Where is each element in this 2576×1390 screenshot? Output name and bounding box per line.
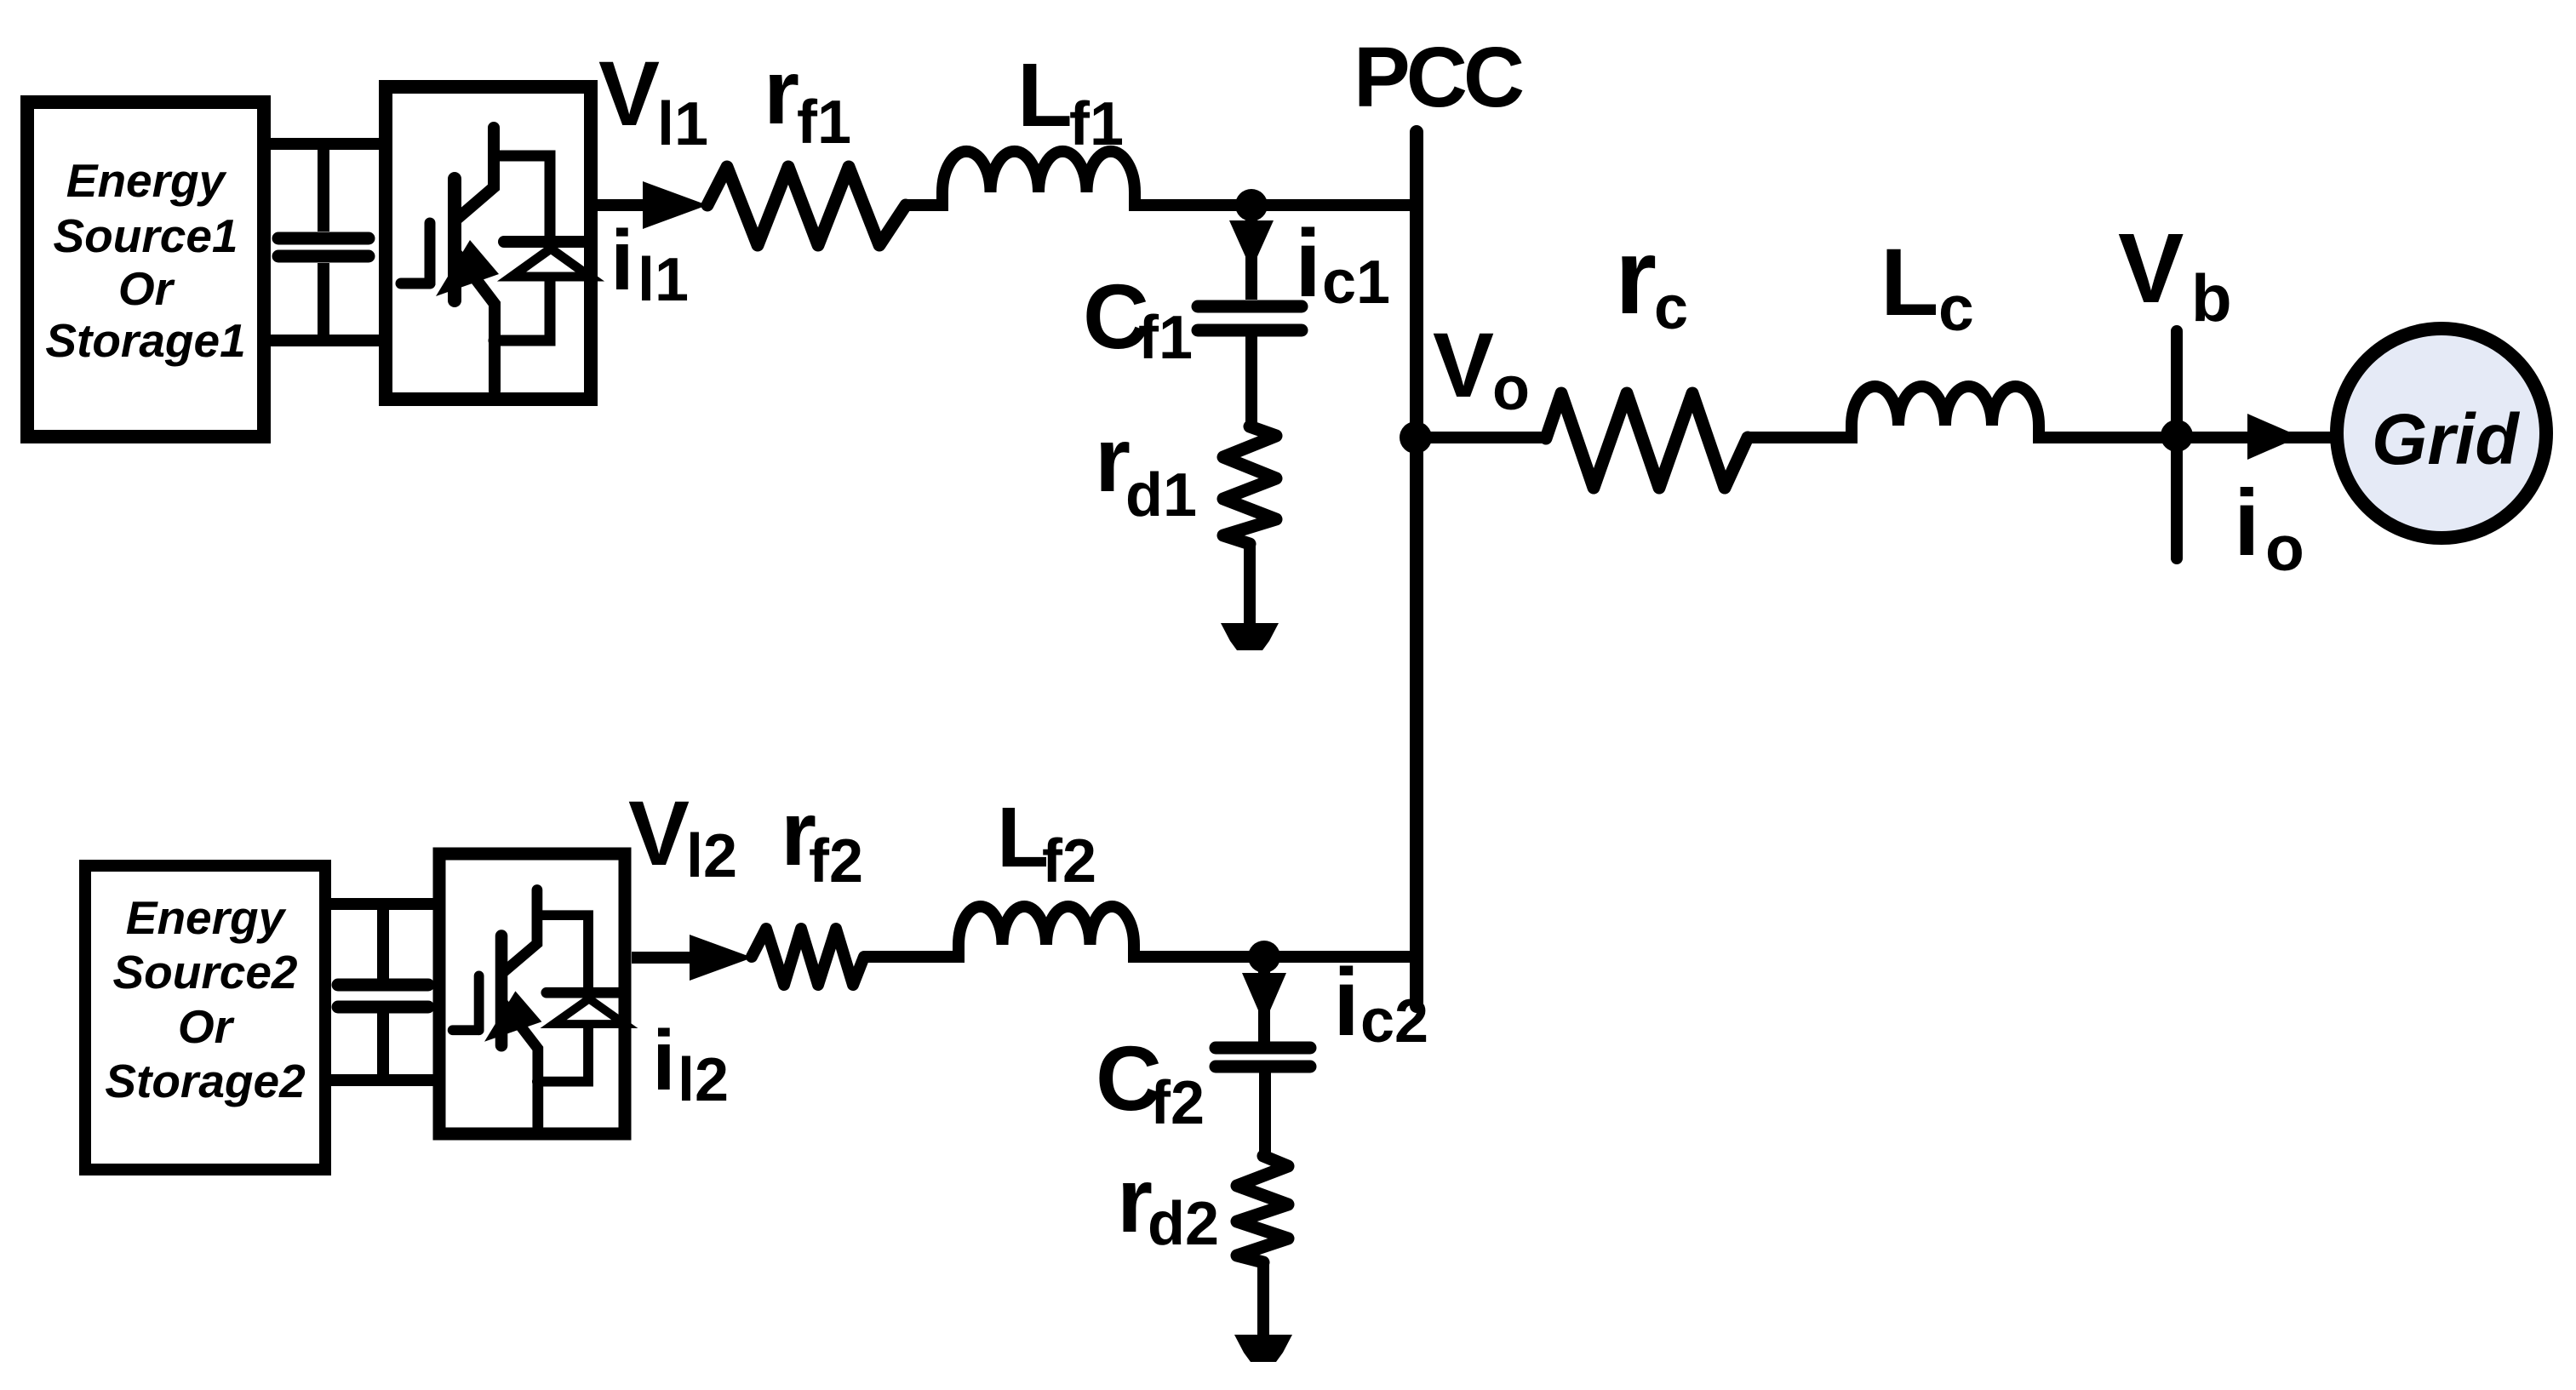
svg-text:d2: d2 — [1148, 1190, 1219, 1258]
svg-text:l1: l1 — [657, 90, 708, 158]
svg-text:r: r — [1615, 216, 1657, 336]
wire — [864, 951, 962, 963]
label C_f1 — [1083, 265, 1193, 372]
inverter U2 box — [439, 854, 625, 1134]
svg-text:L: L — [1880, 229, 1938, 335]
svg-text:l2: l2 — [678, 1046, 729, 1114]
label r_f1 — [764, 40, 851, 157]
resistor r_f1 — [707, 167, 906, 245]
svg-text:r: r — [764, 40, 799, 143]
label r_c — [1615, 216, 1688, 342]
wire — [1748, 432, 1854, 443]
inductor L_c — [1852, 386, 2039, 443]
wire inverter2 output — [632, 952, 694, 964]
svg-text:o: o — [2265, 512, 2304, 584]
svg-text:i: i — [610, 213, 634, 308]
svg-text:d1: d1 — [1125, 461, 1197, 529]
arrow i_c1 — [1245, 213, 1257, 300]
svg-text:c1: c1 — [1322, 249, 1390, 317]
label i_c1 — [1295, 210, 1390, 317]
svg-text:b: b — [2191, 260, 2232, 335]
svg-text:L: L — [997, 790, 1049, 885]
wire to PCC (top) — [1135, 199, 1413, 211]
svg-text:f2: f2 — [809, 827, 863, 895]
svg-text:Energy: Energy — [126, 891, 287, 944]
svg-text:Or: Or — [118, 262, 175, 315]
svg-text:Storage2: Storage2 — [105, 1055, 306, 1107]
label V_l2 — [628, 781, 737, 890]
label i_c2 — [1333, 949, 1428, 1055]
label r_d2 — [1117, 1148, 1219, 1258]
svg-text:Energy: Energy — [66, 154, 227, 207]
svg-text:l2: l2 — [686, 822, 737, 890]
wire DC link bottom 2 — [331, 1074, 438, 1086]
label i_l2 — [652, 1013, 729, 1114]
svg-text:L: L — [1017, 45, 1073, 146]
label r_d1 — [1095, 408, 1197, 529]
IGBT Q1 with antiparallel diode D1 — [401, 128, 590, 391]
wire inverter1 output — [598, 199, 647, 211]
svg-text:i: i — [1333, 949, 1360, 1055]
resistor r_d1 — [1223, 426, 1276, 544]
label L_f1 — [1017, 45, 1124, 158]
label r_f2 — [781, 781, 863, 895]
label V_l1 — [598, 42, 708, 158]
label i_l1 — [610, 213, 689, 314]
label L_c — [1880, 229, 1974, 344]
capacitor C_f1 — [1198, 306, 1302, 430]
svg-text:V: V — [628, 781, 690, 884]
PCC bus line — [1410, 132, 1423, 1006]
current arrow i_l1 — [643, 181, 707, 229]
svg-text:f1: f1 — [797, 89, 851, 157]
wire to ground 2 — [1257, 1262, 1269, 1336]
svg-text:V: V — [2118, 213, 2184, 323]
svg-text:Storage1: Storage1 — [45, 314, 245, 367]
resistor r_c — [1546, 393, 1748, 488]
wire to ground 1 — [1244, 542, 1256, 625]
ground 2 — [1234, 1335, 1292, 1362]
wire V_o to r_c — [1417, 432, 1549, 443]
arrow i_c2 — [1258, 965, 1270, 1045]
node V_o — [1400, 421, 1432, 454]
wire DC link top 1 — [267, 138, 385, 150]
svg-text:V: V — [1433, 313, 1494, 416]
label i_o — [2234, 471, 2304, 584]
svg-text:i: i — [652, 1013, 676, 1108]
wire — [906, 199, 945, 211]
inductor L_f1 — [942, 152, 1135, 211]
svg-text:Source1: Source1 — [53, 209, 238, 262]
DC-link capacitor Cdc2 — [338, 904, 428, 1080]
svg-text:f1: f1 — [1069, 90, 1124, 158]
V_b bus bar — [2171, 331, 2183, 558]
wire DC link bottom 1 — [267, 335, 385, 346]
svg-text:V: V — [598, 42, 660, 145]
svg-text:i: i — [2234, 471, 2260, 575]
wire to PCC (bottom) — [1134, 951, 1413, 963]
resistor r_d2 — [1237, 1156, 1288, 1262]
node dot filter tap 2 — [1248, 941, 1280, 973]
node dot filter tap 1 — [1235, 189, 1268, 221]
svg-text:c2: c2 — [1360, 987, 1428, 1055]
label V_o — [1433, 313, 1530, 423]
ground 1 — [1221, 623, 1279, 650]
svg-text:f1: f1 — [1138, 304, 1193, 372]
svg-text:PCC: PCC — [1354, 30, 1523, 125]
svg-text:c: c — [1654, 274, 1688, 342]
label C_f2 — [1096, 1027, 1205, 1137]
label L_f2 — [997, 790, 1096, 895]
energy source block ES1 — [27, 102, 264, 437]
IGBT Q2 with antiparallel diode D2 — [453, 889, 625, 1126]
wire DC link top 2 — [331, 898, 438, 910]
capacitor C_f2 — [1216, 1048, 1310, 1158]
svg-text:l1: l1 — [638, 246, 689, 314]
svg-text:f2: f2 — [1042, 827, 1096, 895]
label V_b — [2118, 213, 2232, 335]
svg-text:f2: f2 — [1150, 1069, 1205, 1137]
svg-text:c: c — [1938, 272, 1974, 344]
arrow i_o — [2247, 414, 2300, 460]
svg-text:o: o — [1492, 355, 1530, 423]
energy source block ES2 — [85, 866, 325, 1170]
svg-text:Grid: Grid — [2372, 399, 2520, 479]
inductor L_f2 — [959, 907, 1134, 963]
svg-text:Or: Or — [178, 1000, 235, 1053]
DC-link capacitor Cdc1 — [278, 144, 369, 340]
wire to grid — [2039, 432, 2337, 443]
grid G circle — [2337, 329, 2546, 538]
current arrow i_l2 — [690, 935, 753, 981]
svg-text:Source2: Source2 — [112, 946, 297, 998]
node dot V_b — [2161, 420, 2193, 452]
resistor r_f2 — [752, 929, 864, 985]
inverter U1 box — [386, 87, 591, 399]
